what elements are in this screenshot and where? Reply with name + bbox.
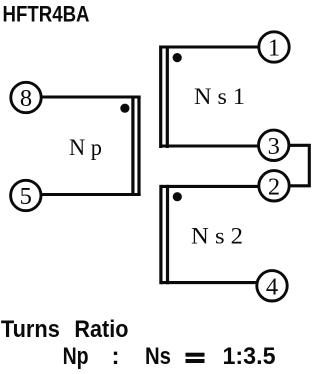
wire pin 5 to primary winding (Np bottom) [40, 193, 141, 196]
part number label HFTR4BA [3, 2, 90, 27]
pin 3 terminal circle [259, 130, 289, 160]
pin 8 terminal circle [11, 82, 41, 112]
svg-text:N s 2: N s 2 [191, 224, 243, 249]
pin number 5 [20, 183, 32, 210]
svg-text:1:3.5: 1:3.5 [223, 343, 276, 370]
pin number 8 [20, 85, 32, 112]
pin 1 terminal circle [259, 32, 289, 62]
svg-text:Ns: Ns [145, 343, 171, 370]
pin 5 terminal circle [11, 180, 41, 210]
pin number 4 [266, 273, 278, 300]
svg-text:Ratio: Ratio [74, 316, 128, 343]
svg-text::: : [112, 343, 120, 370]
wire pin 8 to primary winding (Np top) [40, 95, 141, 98]
pin number 2 [268, 173, 280, 200]
caption line 1: Turns Ratio [1, 316, 129, 343]
caption line 2: Np : Ns = 1:3.5 [63, 343, 276, 370]
polarity dot secondary Ns1 [173, 53, 182, 62]
polarity dot primary Np [120, 104, 129, 113]
svg-text:2: 2 [268, 173, 280, 200]
svg-text:HFTR4BA: HFTR4BA [3, 2, 90, 27]
winding Ns2 vertical bar (outer line) [159, 185, 162, 284]
svg-text:Np: Np [63, 343, 89, 370]
svg-text:8: 8 [20, 85, 32, 112]
label Np [69, 135, 102, 160]
svg-text:5: 5 [20, 183, 32, 210]
winding Np vertical bar (inner line) [131, 96, 134, 197]
pin 2 terminal circle [259, 171, 289, 201]
pin number 3 [268, 133, 280, 160]
winding Ns1 vertical bar (outer line) [159, 46, 162, 149]
svg-text:N s 1: N s 1 [194, 84, 245, 109]
svg-text:Turns: Turns [1, 316, 60, 343]
wire secondary Ns2 bottom to pin 4 [161, 281, 258, 284]
pin 4 terminal circle [257, 271, 287, 301]
polarity dot secondary Ns2 [173, 192, 182, 201]
winding Ns1 vertical bar (inner line) [166, 46, 169, 149]
wire secondary Ns2 top to pin 2 [161, 185, 260, 188]
label Ns1 [194, 84, 245, 109]
svg-text:4: 4 [266, 273, 278, 300]
label Ns2 [191, 224, 243, 249]
wire jumper from pin 3 to pin 2 (right side) [289, 145, 310, 186]
winding Ns2 vertical bar (inner line) [166, 185, 169, 284]
pin number 1 [268, 35, 280, 62]
wire secondary Ns1 bottom to pin 3 [161, 144, 259, 147]
svg-text:N p: N p [69, 135, 102, 160]
svg-text:3: 3 [268, 133, 280, 160]
svg-text:1: 1 [268, 35, 280, 62]
wire secondary Ns1 top to pin 1 [161, 45, 260, 48]
winding Np vertical bar (outer line) [137, 96, 140, 197]
